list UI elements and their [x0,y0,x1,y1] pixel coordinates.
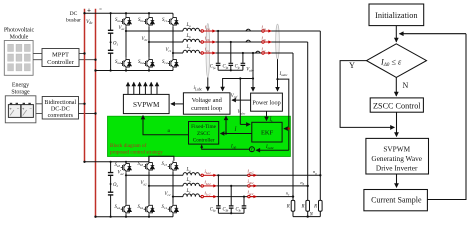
svg-text:current loop: current loop [191,105,222,112]
node Vc1 (phase c takeoff) [172,52,174,54]
svg-text:Bidirectional: Bidirectional [44,100,76,106]
breaker hook phase a [246,29,251,31]
current arrow iLa (red) [201,29,216,32]
svg-text:La: La [186,168,192,173]
node: Vabc to EKF corner [239,77,241,79]
wire: filter cap star join [218,69,243,71]
svg-text:ZSCC: ZSCC [197,131,211,137]
svg-text:O1: O1 [113,41,118,46]
svg-text:Ioabc: Ioabc [265,145,275,150]
dc-link capacitor branch wire (inverter 2) [110,162,112,217]
node: red junction on Ioabc branch [288,127,290,129]
svg-text:ioa: ioa [262,26,267,31]
svg-text:Cfb: Cfb [223,207,229,212]
svg-text:Vabc: Vabc [246,68,254,73]
leg a wire [125,13,127,70]
svg-text:iLa2: iLa2 [205,170,212,175]
wire: I-hat branch up into VCloop [225,116,227,133]
svg-text:Power loop: Power loop [252,100,280,107]
Voltage and current loop box [183,93,230,114]
current arrow iob2 (red) [248,184,257,187]
Power loop box [251,93,283,111]
svg-text:Cfa: Cfa [210,207,216,212]
svg-text:Va2: Va2 [118,171,125,176]
svg-text:Vc1: Vc1 [166,48,172,53]
svg-text:Fixed-Time: Fixed-Time [191,124,216,130]
node: I-hat branch [225,132,227,134]
svg-text:Sa1: Sa1 [115,18,121,23]
svg-text:Sc1: Sc1 [162,18,168,23]
inductor La2 [183,173,199,176]
svg-text:busbar: busbar [66,18,81,24]
node Vc2 [172,196,174,198]
IGBT Sa2 [121,58,132,69]
svg-text:Sa3: Sa3 [115,163,121,168]
current arrow ioa2 (red) [248,174,257,177]
svg-text:Sa2: Sa2 [115,60,121,65]
resistor R (phase a) [319,200,323,211]
svg-text:IΔ0: IΔ0 [230,144,237,149]
wire: phase c2 line [173,196,293,198]
current arrow iLc2 (red) [201,195,217,198]
svg-text:Sa4: Sa4 [115,205,121,210]
svg-text:Module: Module [10,35,29,41]
wire: Ioabc into summation [256,149,289,151]
filter cap Cfb2 branch [230,185,232,187]
svg-text:Sc4: Sc4 [162,205,168,210]
svg-text:Generating Wave: Generating Wave [371,154,422,163]
inductor Lc2 [183,194,199,197]
filter cap Cfa branch [217,30,219,32]
svg-text:Controller: Controller [193,137,215,143]
wire: neutral join N [293,216,320,218]
svg-text:R: R [286,204,290,209]
arrow: SVPWM to Current Sample [396,174,398,187]
svg-text:converters: converters [48,113,74,119]
wire: MPPT to bus+ [79,53,85,55]
breaker hook phase b [246,40,251,42]
IGBT Sc2 [168,58,179,69]
svg-text:Drive Inverter: Drive Inverter [376,164,418,173]
ZSCC Control box [370,98,423,112]
Bidirectional DC-DC converters box [42,97,78,120]
svg-text:iob2: iob2 [248,180,254,185]
wire: Ioabc sensor drop into Power loop [277,59,279,91]
IGBT Sc4 [168,204,179,215]
svg-text:Sb1: Sb1 [138,18,144,23]
DC bus negative rail (red) [95,9,97,217]
svg-text:ioc2: ioc2 [248,191,254,196]
wire: PV to MPPT lower [33,59,42,61]
svg-text:Block diagram of: Block diagram of [110,142,147,149]
node: DCDC+ on red1 [83,103,85,105]
svg-text:SVPWM: SVPWM [383,144,410,153]
svg-text:Sc2: Sc2 [162,60,168,65]
node nc [292,195,294,197]
svg-text:Lc: Lc [186,189,192,194]
svg-text:Lb: Lb [186,34,192,39]
svg-text:=: = [99,8,102,13]
wire: phase c line [173,52,293,54]
IGBT Sa4 [121,204,132,215]
capacitor C4 (lower) [108,192,113,195]
wire: I-hat EKF to ZSCC [221,133,252,135]
leg c2 wire [172,172,174,217]
IGBT Sb3 [144,161,155,172]
wire: DC+ top rail [85,12,174,14]
svg-text:Lc: Lc [186,45,192,50]
wire: phase a2 line [126,174,320,176]
summation node [249,147,254,152]
svg-text:ZSCC Control: ZSCC Control [373,102,421,111]
Initialization box [369,4,424,26]
svg-text:Sb2: Sb2 [138,60,144,65]
IGBT Sb4 [144,204,155,215]
svg-text:Va1: Va1 [119,26,126,31]
filter cap Cfb branch [230,41,232,43]
EKF box [252,122,282,142]
svg-text:EKF: EKF [261,130,274,137]
svg-text:Vref: Vref [231,94,239,99]
wire: feedback join arrow [400,33,467,35]
node Vb1 (phase b takeoff) [148,41,150,43]
svg-text:DC-DC: DC-DC [51,107,70,113]
wire: feedback loop right side [427,34,466,200]
current arrow ioc (red) [262,51,272,54]
current arrow ioa (red) [262,29,272,32]
current arrow iLb (red) [201,40,216,43]
svg-text:Σ: Σ [251,147,254,152]
svg-text:iLc2: iLc2 [205,191,211,196]
node na [319,174,321,176]
svg-text:Cfa: Cfa [210,65,216,70]
svg-text:La: La [186,23,192,28]
PV panel box [4,41,33,76]
wire: MPPT to bus- [79,59,96,61]
MPPT Controller box [42,49,79,67]
current arrow iLb2 (red) [201,184,217,187]
svg-text:ioa2: ioa2 [248,169,254,174]
IGBT Sc3 [168,161,179,172]
wire: iLabc sensor drop into VCloop [207,78,209,91]
svg-text:R: R [301,204,305,209]
arrow: init to decision [395,26,397,42]
IGBT Sb2 [144,58,155,69]
wire: battery to DC-DC upper [36,103,42,105]
node Va2 [125,174,127,176]
wire: arrow into EKF right side [284,128,289,130]
svg-text:Sb4: Sb4 [138,205,144,210]
svg-text:Cfc: Cfc [235,65,241,70]
svg-text:iLa: iLa [205,26,210,31]
Fixed-Time ZSCC Controller box [189,122,219,145]
wire: Vabc branch down to EKF (crosses into green) [239,79,241,125]
leg b2 wire [148,156,150,217]
svg-text:Sb3: Sb3 [138,162,144,167]
svg-text:iLb2: iLb2 [205,181,212,186]
current arrow iLc (red) [201,51,216,54]
battery cell 2 [23,103,25,105]
svg-text:SVPWM: SVPWM [133,101,160,109]
filter cap Cfc branch [242,52,244,54]
svg-text:MPPT: MPPT [52,52,69,59]
svg-text:Vc2: Vc2 [165,192,171,197]
svg-text:Vb1: Vb1 [142,37,149,42]
svg-text:Voltage and: Voltage and [192,97,223,104]
svg-text:N: N [403,81,409,90]
resistor R (phase b) [306,200,310,211]
wire: Vabc arrow into EKF left [240,123,250,125]
leg a2 wire [125,173,127,217]
svg-text:+: + [22,106,25,111]
svg-text:iLb: iLb [205,37,210,42]
node Va1 (phase a takeoff) [125,30,127,32]
wire: output bus a vertical [319,31,321,217]
current arrow iLa2 (red) [201,174,217,177]
current sensor ellipse Ioabc [276,24,280,59]
wire: DC+ rail with jog [85,156,174,162]
svg-text:−: − [29,106,32,111]
wire: IL from Power loop into EKF top [266,111,268,120]
gate drive arrows (6) [127,82,129,94]
leg b wire [148,13,150,70]
svg-text:iob: iob [262,37,267,42]
dc-link capacitor branch wire [110,13,112,70]
svg-text:O2: O2 [113,183,118,188]
inductor Lb [183,39,199,42]
capacitor C2 (lower) [108,50,113,53]
green highlight rectangle (drawn first, under wires) [108,116,291,156]
wire: filter cap join (inverter 2) [218,212,244,214]
current arrow iob (red) [262,40,272,43]
svg-text:Cfb: Cfb [223,65,229,70]
inductor Lc [183,50,199,53]
wire: DC- bottom rail [96,216,174,218]
svg-text:DC: DC [70,11,78,17]
PV cells grid [8,44,31,71]
filter cap Cfc2 branch [243,196,245,198]
svg-text:Y: Y [349,61,355,70]
resistor R (phase c) [291,200,295,211]
svg-text:iLc: iLc [205,48,210,53]
SVPWM Generating Wave Drive Inverter box [366,138,429,174]
wire: output bus b vertical [307,42,309,217]
svg-text:R: R [313,204,317,209]
Current Sample box [364,190,428,211]
wire: Vref Power loop to VCloop [232,99,251,101]
node O2 (midpoint) [110,183,112,185]
arrow: ZSCC to SVPWM [396,112,398,136]
wire: DC-DC to bus- [79,113,96,115]
capacitor C1 (upper) [108,30,113,33]
IGBT Sc1 [168,16,179,27]
leg c wire [172,13,174,70]
svg-text:Vabc: Vabc [238,110,246,115]
svg-text:proposed control strategy: proposed control strategy [110,150,163,156]
wire: Vabc tap on phase c down to Power loop [252,52,254,54]
wire: phase b2 line [149,185,308,187]
IGBT Sa1 [121,16,132,27]
wire: DC- bottom rail [96,70,174,72]
svg-text:Storage: Storage [11,90,30,96]
svg-text:Current Sample: Current Sample [371,195,422,204]
battery cell 1 [10,103,12,105]
svg-text:Initialization: Initialization [375,11,418,20]
wire: PV to MPPT upper [33,53,42,55]
svg-text:Sc3: Sc3 [162,162,168,167]
wire: Vabc branch into VCloop top [223,79,253,91]
decision diamond [367,44,427,78]
wire: Idelta0 from summation into ZSCC bottom [202,147,250,150]
node: Vabc distribution junction [252,77,254,79]
node: DCDC- on red2 [94,112,96,114]
svg-text:ioc: ioc [262,48,267,53]
svg-text:Cfc: Cfc [236,207,242,212]
arrow: N branch down [395,77,397,96]
IGBT Sa3 [121,162,132,173]
breaker hook phase c [255,51,260,53]
current sensor ellipse iLabc [206,24,210,78]
node O1 (dc-link midpoint) [110,41,112,43]
inductor Lb2 [183,183,199,186]
wire: battery to DC-DC lower [36,113,42,115]
node nb [307,185,309,187]
wire: DC-DC to bus+ [79,103,85,105]
node: MPPT+ on red1 [83,52,85,54]
battery bank box [5,96,36,123]
current arrow ioc2 (red) [248,195,257,198]
IGBT Sb1 [144,16,155,27]
wire: phase a line [126,30,320,32]
svg-text:Ioabc: Ioabc [279,72,289,77]
svg-text:Energy: Energy [12,83,29,89]
DC bus positive rail (red) [84,9,86,162]
wire: u output ZSCC to SVPWM [143,116,189,135]
node: MPPT- on red2 [94,59,96,61]
inductor La [183,28,199,31]
svg-text:Vb2: Vb2 [141,181,148,186]
filter cap Cfa2 branch [217,174,219,176]
capacitor C3 (upper) [108,173,113,176]
SVPWM box [123,94,169,113]
wire: VCloop to SVPWM arrow [171,103,183,105]
svg-text:−: − [17,106,20,111]
wire: Ioabc branch right [278,79,289,150]
node Vb2 [148,185,150,187]
svg-text:Lb: Lb [186,178,192,183]
svg-text:Controller: Controller [47,59,75,66]
svg-text:Photovoltaic: Photovoltaic [4,28,35,34]
wire: output bus c vertical [292,53,294,217]
wire: phase b line [149,41,308,43]
wire: Y branch loop [340,61,394,128]
